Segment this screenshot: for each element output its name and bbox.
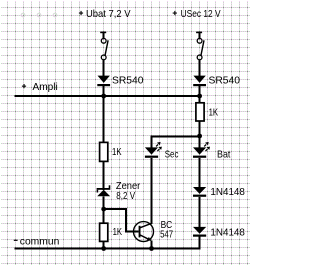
svg-text:SR540: SR540 bbox=[209, 76, 241, 87]
svg-text:commun: commun bbox=[20, 236, 60, 247]
resistor R2 1K bbox=[100, 223, 123, 241]
svg-text:Sec: Sec bbox=[165, 150, 179, 161]
svg-text:Bat: Bat bbox=[217, 150, 231, 161]
svg-text:1K: 1K bbox=[209, 108, 219, 119]
wire Sec LED to Q1 collector bbox=[151, 158, 153, 224]
svg-text:Ubat 7,2 V: Ubat 7,2 V bbox=[86, 9, 131, 20]
wire R3 to LED Bat bbox=[199, 121, 201, 148]
wire R1 to Z1 bbox=[103, 161, 105, 189]
wire base branch bbox=[104, 209, 139, 231]
svg-text:8,2 V: 8,2 V bbox=[116, 191, 135, 202]
wire D4 to commun rail bbox=[199, 237, 201, 250]
net label +Ubat 7,2 V bbox=[79, 9, 131, 20]
wire D1 to Ampli rail and R1 bbox=[103, 86, 105, 142]
svg-text:1N4148: 1N4148 bbox=[210, 187, 245, 198]
wire rail -commun bbox=[15, 248, 201, 250]
wire D2 to rail and R3 bbox=[199, 86, 201, 103]
resistor R1 1K bbox=[100, 142, 122, 161]
wire Q1 emitter to commun rail bbox=[151, 240, 153, 248]
diode D1 SR540 bbox=[97, 76, 143, 87]
svg-text:1K: 1K bbox=[113, 227, 123, 238]
LED Bat bbox=[193, 142, 231, 161]
transistor Q1 BC547 bbox=[134, 220, 174, 242]
svg-text:1N4148: 1N4148 bbox=[210, 228, 245, 239]
junction dot node Ampli left bbox=[101, 94, 106, 99]
junction dot node Sec branch bbox=[197, 134, 202, 139]
wire USec pin stub bbox=[196, 32, 202, 39]
grid marker circles bbox=[21, 13, 57, 17]
wire branch to Sec LED bbox=[152, 137, 200, 148]
wire S2 to D2 bbox=[199, 60, 201, 76]
svg-text:USec 12 V: USec 12 V bbox=[181, 9, 221, 20]
svg-text:547: 547 bbox=[160, 230, 173, 241]
junction dot commun emitter bbox=[149, 246, 154, 251]
junction dot node base bbox=[101, 207, 106, 212]
wire Bat LED to D3 bbox=[199, 158, 201, 187]
diode D2 SR540 bbox=[193, 76, 240, 87]
wire R2 to commun rail bbox=[103, 241, 105, 248]
switch S1 bbox=[101, 38, 108, 59]
junction dot commun left bbox=[101, 246, 106, 251]
wire D3 to D4 bbox=[199, 197, 201, 227]
diode D3 1N4148 bbox=[193, 187, 245, 198]
wire S1 to D1 bbox=[103, 60, 105, 76]
net label -commun bbox=[14, 236, 60, 247]
LED Sec bbox=[145, 142, 179, 161]
junction dot node Ampli right bbox=[197, 94, 202, 99]
net label +USec 12 V bbox=[173, 9, 221, 20]
net label +Ampli bbox=[22, 82, 58, 93]
svg-text:Ampli: Ampli bbox=[33, 82, 58, 93]
wire Ubat pin stub bbox=[100, 32, 106, 39]
zener Z1 8,2V bbox=[97, 181, 141, 202]
switch S2 bbox=[197, 38, 204, 59]
diode D4 1N4148 bbox=[193, 227, 245, 239]
svg-text:1K: 1K bbox=[112, 147, 122, 158]
wire rail +Ampli bbox=[15, 95, 201, 97]
resistor R3 1K bbox=[196, 103, 218, 121]
wire Z1 to R2 bbox=[103, 196, 105, 223]
svg-text:SR540: SR540 bbox=[112, 76, 144, 87]
